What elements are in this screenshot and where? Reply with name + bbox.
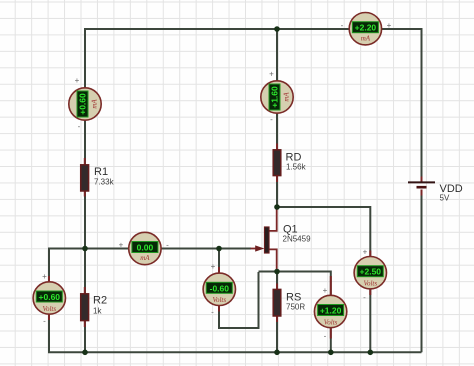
- svg-text:-: -: [363, 293, 366, 302]
- wire V3 column x=370.3 (down through voltmeter V3 to bottom rail): [369, 206, 371, 352]
- svg-text:+: +: [42, 272, 47, 281]
- svg-text:+: +: [211, 262, 216, 271]
- svg-text:750R: 750R: [286, 303, 305, 312]
- svg-text:-: -: [166, 241, 169, 250]
- junction node: bottom rail / RS column: [274, 350, 280, 356]
- svg-text:+0.60: +0.60: [78, 93, 88, 115]
- junction node: gate row / V2 branch: [216, 246, 222, 252]
- svg-text:2N5459: 2N5459: [283, 235, 312, 244]
- svg-text:7.33k: 7.33k: [94, 178, 115, 187]
- resistor R2 1k: [81, 287, 107, 327]
- ammeter A4 0.00 mA (horizontal, gate row): [119, 232, 170, 264]
- wire RS column x=277 (source junction through RS to bottom rail): [276, 272, 278, 353]
- svg-text:+0.60: +0.60: [39, 292, 61, 302]
- svg-text:Volts: Volts: [42, 305, 56, 313]
- svg-text:-: -: [324, 332, 327, 341]
- svg-text:-: -: [270, 115, 273, 124]
- wire V2 branch: down from gate row through voltmeter V2, jog right and up to source row: [219, 249, 259, 329]
- voltmeter V1 +0.60 Volts: [33, 272, 65, 326]
- wire top rail from left column to VDD column: [85, 28, 422, 30]
- wire VDD column lower (battery bottom down to bottom rail): [421, 194, 423, 353]
- resistor RS 750R: [273, 284, 305, 323]
- wire gate row y=248.5 (from V1 branch to Q1 gate): [49, 248, 251, 250]
- svg-text:Volts: Volts: [212, 296, 226, 304]
- svg-text:+: +: [119, 241, 124, 250]
- junction node: bottom rail / left column: [82, 350, 88, 356]
- ammeter A3 +1.60 mA (vertical): [261, 70, 293, 125]
- svg-text:+: +: [363, 248, 368, 257]
- transistor Q1 2N5459 (N-JFET): [251, 207, 312, 272]
- voltmeter V4 +1.20 Volts: [314, 276, 346, 341]
- svg-text:+1.20: +1.20: [320, 306, 342, 316]
- wire drain row y=207 (drain junction to V3 column): [277, 206, 370, 208]
- gate pin: [251, 248, 257, 250]
- drain pin: [269, 207, 277, 231]
- svg-text:+2.20: +2.20: [355, 23, 377, 33]
- svg-text:-: -: [341, 21, 344, 30]
- svg-text:+: +: [323, 286, 328, 295]
- junction node: bottom rail / V4 column: [328, 350, 334, 356]
- gate arrow: [255, 245, 264, 251]
- svg-text:+: +: [75, 76, 80, 85]
- wire RD column x=277 (top rail through ammeter A3 and RD to drain junction): [276, 28, 278, 207]
- svg-text:mA: mA: [283, 92, 291, 102]
- junction node: bottom rail / V3 column: [368, 350, 374, 356]
- svg-text:+: +: [269, 70, 274, 79]
- voltmeter V2 -0.60 Volts: [203, 262, 235, 317]
- svg-text:R2: R2: [93, 295, 107, 307]
- svg-text:1k: 1k: [93, 307, 102, 316]
- voltmeter V3 +2.50 Volts: [354, 248, 386, 303]
- svg-text:+1.60: +1.60: [270, 86, 280, 108]
- ammeter A1 +0.60 mA (vertical): [69, 76, 101, 131]
- svg-text:Volts: Volts: [324, 318, 338, 326]
- svg-text:0.00: 0.00: [137, 243, 154, 253]
- resistor RD 1.56k: [273, 144, 306, 183]
- resistor R1 7.33k: [81, 158, 115, 197]
- junction node: left column / gate row: [82, 246, 88, 252]
- svg-text:mA: mA: [140, 254, 150, 262]
- svg-text:Volts: Volts: [363, 280, 377, 288]
- svg-text:-: -: [211, 308, 214, 317]
- svg-text:5V: 5V: [440, 194, 450, 203]
- svg-text:1.56k: 1.56k: [286, 163, 307, 172]
- wire VDD column upper (top rail down to battery top): [421, 28, 423, 178]
- junction node: source junction: [274, 269, 280, 275]
- wire source row y=271.5 with drop to voltmeter V4 column: [259, 272, 331, 353]
- channel bar: [264, 227, 269, 253]
- battery VDD 5V: [408, 177, 463, 203]
- svg-text:mA: mA: [91, 99, 99, 109]
- svg-text:R1: R1: [94, 166, 108, 178]
- wire bottom rail y=352.3: [48, 351, 422, 353]
- svg-text:+2.50: +2.50: [360, 267, 382, 277]
- wire left column x=85 (through ammeter A1, R1, down to bottom rail): [84, 28, 86, 352]
- svg-text:-: -: [78, 122, 81, 131]
- svg-text:-: -: [43, 317, 46, 326]
- wire V1 column x=49 (down through voltmeter V1 to bottom rail): [48, 248, 50, 353]
- svg-text:-0.60: -0.60: [210, 283, 230, 293]
- svg-text:mA: mA: [361, 35, 371, 43]
- junction node: drain junction: [274, 204, 280, 210]
- source pin: [269, 249, 277, 271]
- ammeter A2 +2.20 mA (horizontal, top right): [341, 13, 392, 45]
- svg-text:+: +: [387, 21, 392, 30]
- junction node: top rail / RD column: [274, 26, 280, 32]
